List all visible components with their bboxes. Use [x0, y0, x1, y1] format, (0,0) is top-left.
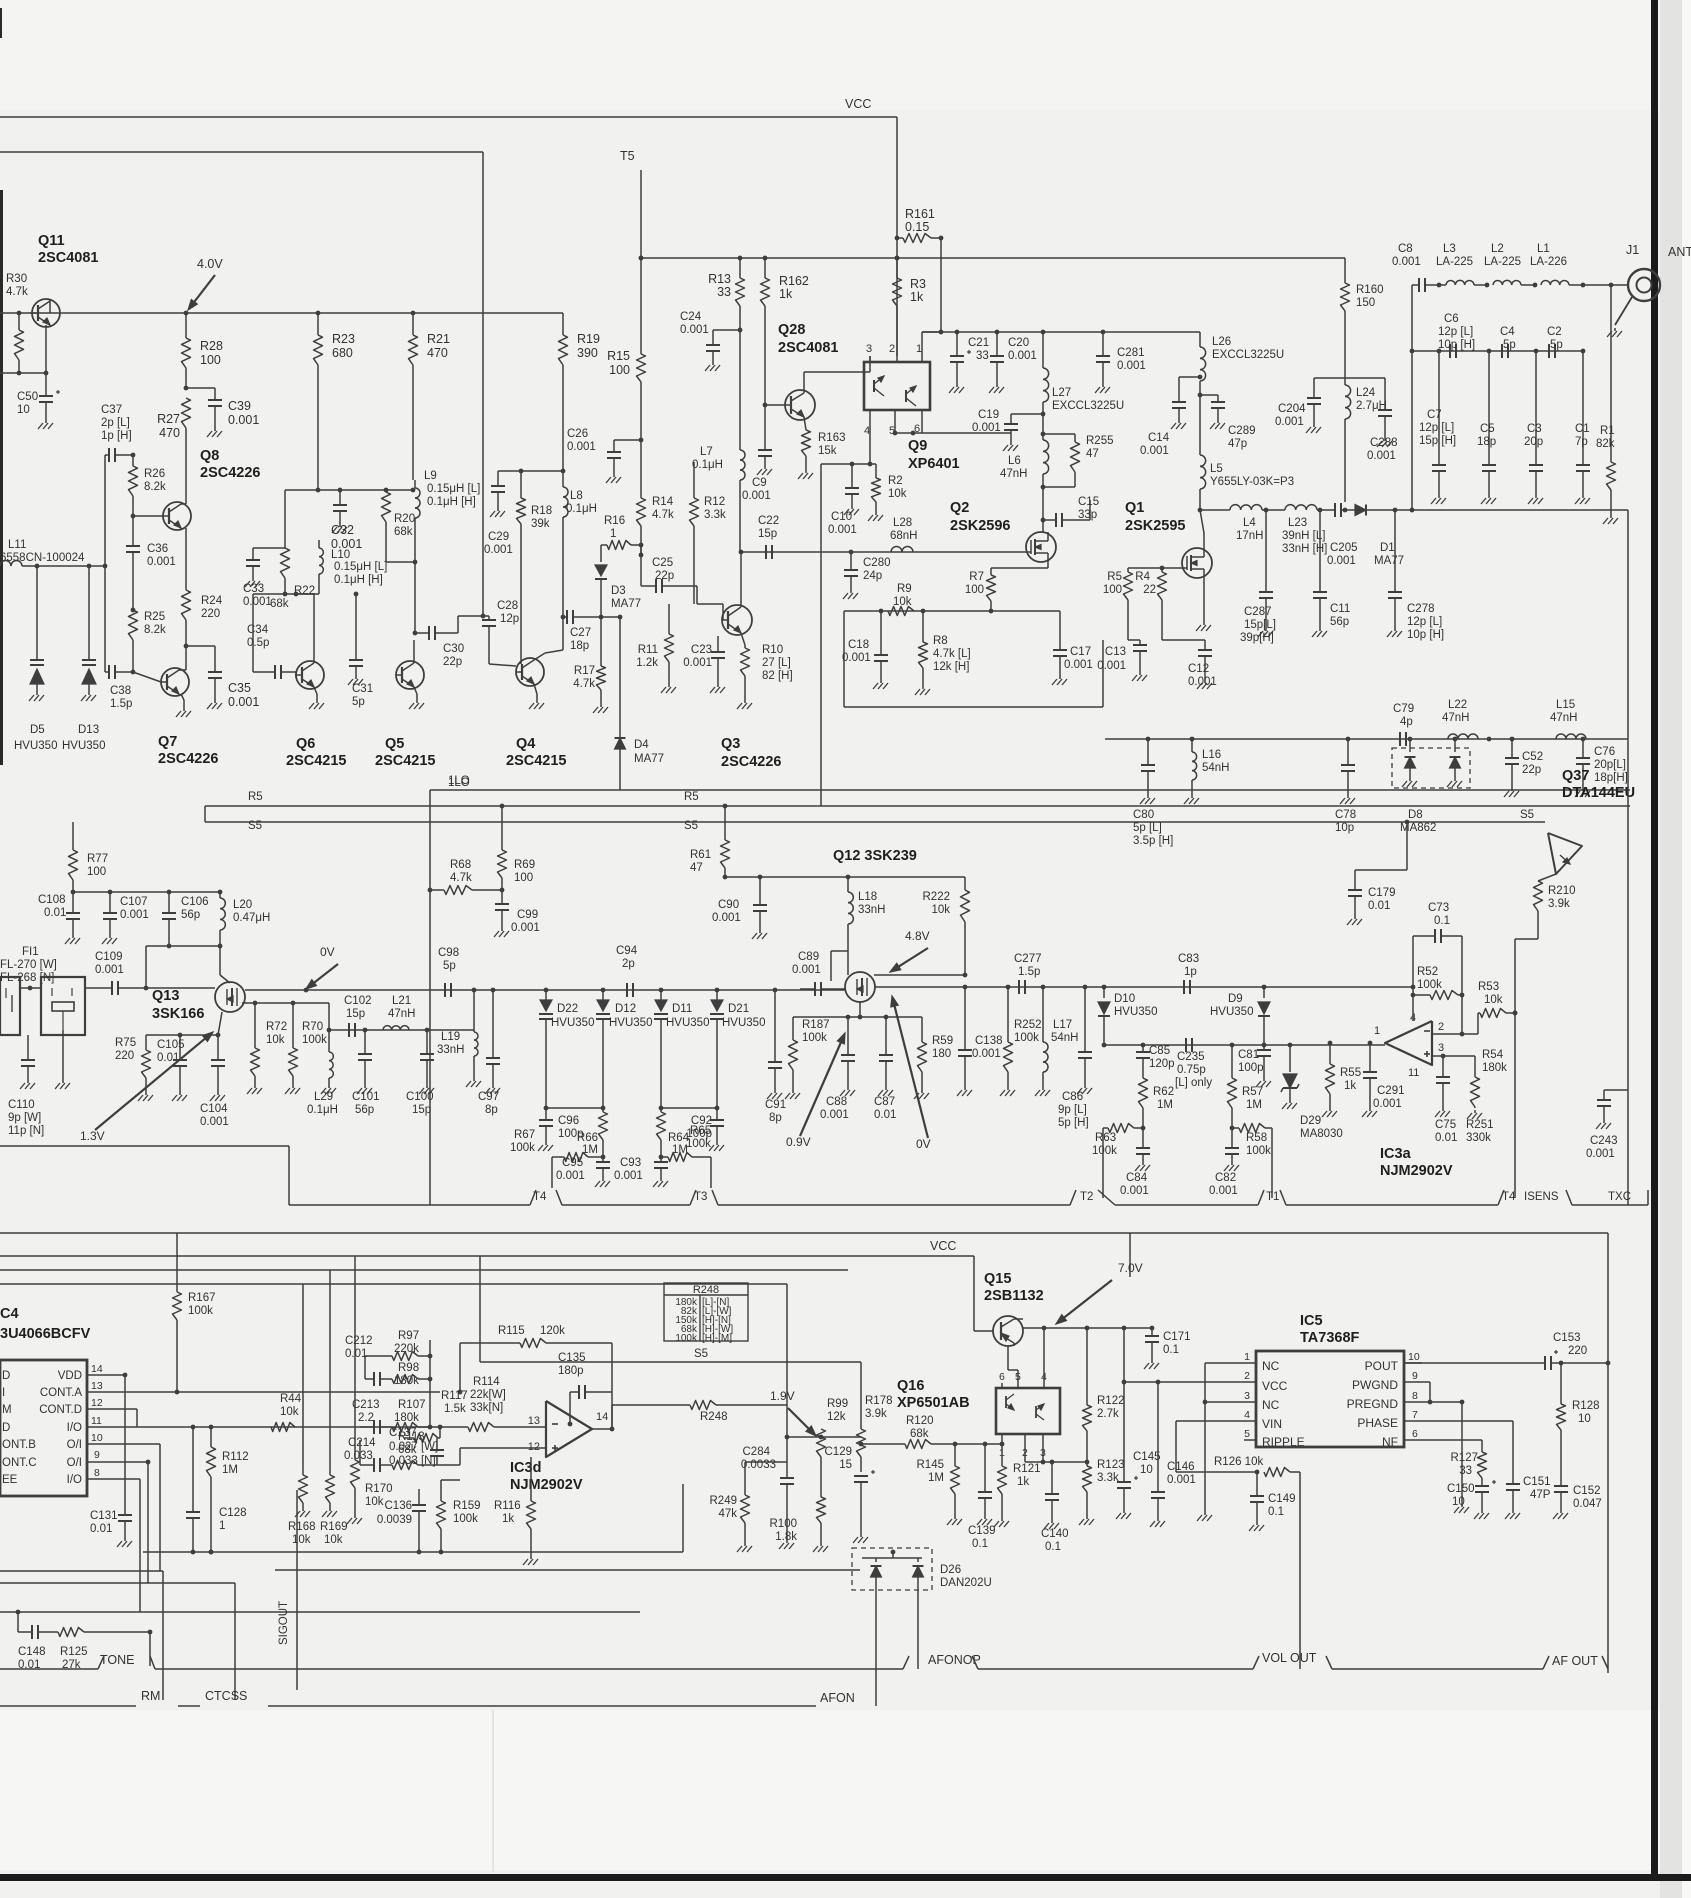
- capacitor C212: [345, 1335, 380, 1386]
- svg-text:C86: C86: [1062, 1091, 1083, 1103]
- svg-text:100k: 100k: [1092, 1145, 1117, 1157]
- svg-text:C34: C34: [247, 624, 269, 636]
- wire IC5 NC tie: [1197, 1363, 1238, 1521]
- svg-text:R162: R162: [779, 274, 809, 288]
- capacitor C87: [874, 1017, 896, 1121]
- border bottom heavy line: [0, 1874, 1691, 1881]
- svg-text:R27: R27: [157, 412, 180, 426]
- resistor R252: [1000, 987, 1042, 1096]
- capacitor C108: [38, 892, 80, 944]
- resistor R248: [612, 1401, 787, 1430]
- svg-text:15p: 15p: [758, 528, 777, 540]
- svg-text:5p [L]: 5p [L]: [1133, 822, 1162, 834]
- svg-text:C15: C15: [1078, 496, 1099, 508]
- resistor R112: [207, 1427, 249, 1554]
- svg-text:L26: L26: [1212, 336, 1231, 348]
- capacitor C23: [683, 636, 725, 693]
- svg-text:CONT.A: CONT.A: [40, 1387, 83, 1399]
- svg-text:C22: C22: [758, 515, 779, 527]
- svg-text:L16: L16: [1202, 749, 1221, 761]
- svg-text:C14: C14: [1148, 432, 1170, 444]
- svg-text:R116: R116: [494, 1500, 521, 1512]
- resistor R187: [785, 1017, 830, 1099]
- svg-text:Q7: Q7: [158, 734, 177, 750]
- ground Q4 emitter: [529, 684, 544, 709]
- wire IC4 pin8: [97, 1479, 140, 1612]
- svg-text:100k: 100k: [188, 1305, 213, 1317]
- svg-text:RM: RM: [141, 1689, 160, 1703]
- svg-text:2p [L]: 2p [L]: [101, 417, 130, 429]
- ground Q7 emitter: [176, 694, 191, 717]
- svg-text:C1: C1: [1575, 423, 1590, 435]
- svg-text:0.001: 0.001: [1209, 1185, 1238, 1197]
- svg-text:100p: 100p: [1238, 1062, 1264, 1074]
- svg-text:0.1μH: 0.1μH: [307, 1104, 338, 1116]
- resistor R62: [1139, 1078, 1175, 1128]
- resistor R23: [314, 311, 355, 490]
- svg-text:C8: C8: [1398, 243, 1413, 255]
- left edge scan mark: [0, 190, 3, 765]
- svg-text:C107: C107: [120, 896, 148, 908]
- svg-text:C235: C235: [1177, 1051, 1205, 1063]
- varactor D9: [1210, 985, 1270, 1045]
- transistor Q4: [506, 650, 566, 769]
- capacitor C10: [828, 464, 859, 536]
- svg-text:D9: D9: [1228, 993, 1243, 1005]
- wire IC5 VCC line: [1122, 1380, 1238, 1385]
- svg-text:C33: C33: [243, 583, 264, 595]
- svg-text:10: 10: [1452, 1496, 1465, 1508]
- svg-text:15: 15: [839, 1459, 852, 1471]
- svg-text:9: 9: [94, 1449, 100, 1461]
- svg-text:PWGND: PWGND: [1352, 1378, 1398, 1392]
- svg-text:C80: C80: [1133, 809, 1154, 821]
- svg-text:IC5: IC5: [1300, 1313, 1323, 1329]
- svg-text:R16: R16: [604, 515, 625, 527]
- svg-text:1LO: 1LO: [448, 775, 470, 787]
- svg-text:10k: 10k: [1484, 994, 1503, 1006]
- svg-text:L28: L28: [893, 517, 912, 529]
- inductor L9: [415, 470, 480, 562]
- svg-text:47nH: 47nH: [388, 1008, 416, 1020]
- svg-text:47nH: 47nH: [1550, 712, 1578, 724]
- svg-text:2SC4081: 2SC4081: [38, 250, 98, 266]
- inductor L6: [1000, 414, 1049, 490]
- svg-text:ONT.C: ONT.C: [2, 1457, 37, 1469]
- svg-text:0.001: 0.001: [556, 1170, 585, 1182]
- svg-text:9: 9: [1412, 1370, 1418, 1382]
- resistor R20: [382, 488, 416, 562]
- capacitor C33: [243, 548, 285, 608]
- svg-text:33: 33: [976, 350, 989, 362]
- capacitor C75: [1435, 1077, 1457, 1144]
- IC5 pin stubs left: [1238, 1351, 1256, 1440]
- wire IC5 gnd pins: [1422, 1382, 1469, 1513]
- svg-text:33k[N]: 33k[N]: [470, 1402, 503, 1414]
- svg-text:R114: R114: [473, 1376, 500, 1388]
- wire L5 node row: [1198, 508, 1230, 513]
- svg-text:330k: 330k: [1466, 1132, 1491, 1144]
- svg-text:0V: 0V: [320, 945, 335, 959]
- svg-text:R77: R77: [87, 853, 108, 865]
- resistor R9: [888, 583, 914, 616]
- frame bottom line 2: [0, 1705, 816, 1707]
- svg-text:10k: 10k: [280, 1406, 299, 1418]
- svg-text:220: 220: [115, 1050, 134, 1062]
- svg-text:AF OUT: AF OUT: [1552, 1654, 1598, 1668]
- svg-text:R252: R252: [1014, 1019, 1042, 1031]
- svg-text:C25: C25: [652, 557, 673, 569]
- svg-text:O/I: O/I: [67, 1439, 82, 1451]
- svg-text:0.033: 0.033: [344, 1450, 373, 1462]
- svg-text:6: 6: [999, 1371, 1005, 1383]
- capacitor C94: [616, 945, 638, 997]
- inductor L23: [1282, 505, 1335, 555]
- wire TONE branch: [18, 1612, 32, 1632]
- svg-text:L2: L2: [1491, 243, 1504, 255]
- svg-text:4.7k [L]: 4.7k [L]: [933, 648, 971, 660]
- svg-text:C278: C278: [1407, 603, 1435, 615]
- svg-text:NF: NF: [1382, 1435, 1398, 1449]
- svg-text:CONT.D: CONT.D: [39, 1404, 82, 1416]
- capacitor C86: [1058, 985, 1092, 1129]
- svg-text:5p [H]: 5p [H]: [1058, 1117, 1089, 1129]
- svg-text:L20: L20: [233, 899, 252, 911]
- capacitor C7: [1419, 351, 1456, 504]
- svg-text:VDD: VDD: [58, 1370, 82, 1382]
- svg-text:47: 47: [690, 862, 703, 874]
- resistor R162: [761, 256, 809, 405]
- svg-text:R65: R65: [690, 1125, 711, 1137]
- svg-text:8p: 8p: [769, 1112, 782, 1124]
- svg-text:100k: 100k: [302, 1034, 327, 1046]
- svg-text:C11: C11: [1330, 603, 1350, 615]
- wire Q28 collector to Q9: [804, 356, 870, 393]
- svg-text:C36: C36: [147, 543, 168, 555]
- svg-text:R169: R169: [320, 1521, 348, 1533]
- svg-text:100: 100: [965, 584, 984, 596]
- resistor R116: [494, 1457, 538, 1565]
- wire C10 row: [821, 462, 876, 806]
- svg-text:Q15: Q15: [984, 1271, 1011, 1287]
- box IC3d block outline: [143, 1484, 683, 1554]
- capacitor C8: [1392, 243, 1441, 292]
- capacitor C82: [1209, 1128, 1239, 1197]
- wire IC3a pin4 column: [1411, 936, 1416, 1021]
- svg-text:C153: C153: [1553, 1332, 1581, 1344]
- svg-text:R178: R178: [865, 1395, 893, 1407]
- svg-text:VCC: VCC: [845, 97, 871, 111]
- IC4 pin stubs: [87, 1363, 103, 1479]
- svg-text:C75: C75: [1435, 1119, 1456, 1131]
- svg-text:C30: C30: [443, 643, 464, 655]
- svg-text:47P: 47P: [1530, 1489, 1551, 1501]
- svg-text:C138: C138: [975, 1035, 1003, 1047]
- svg-text:2SC4226: 2SC4226: [158, 751, 218, 767]
- capacitor C83: [1178, 953, 1199, 994]
- svg-text:C88: C88: [826, 1096, 847, 1108]
- resistor R75: [115, 1035, 153, 1101]
- svg-text:R249: R249: [710, 1495, 738, 1507]
- svg-text:HVU350: HVU350: [722, 1017, 765, 1029]
- svg-text:5p: 5p: [1503, 339, 1516, 351]
- svg-text:10k: 10k: [324, 1534, 343, 1546]
- wire T4 net: [544, 1106, 606, 1111]
- resistor R15: [607, 256, 645, 440]
- svg-text:15k: 15k: [818, 445, 837, 457]
- inductor L29: [307, 1030, 338, 1116]
- capacitor C32: [331, 490, 362, 551]
- wire Q9 pin1 link: [922, 330, 943, 335]
- capacitor C79: [1393, 703, 1414, 746]
- svg-text:Q3: Q3: [721, 736, 740, 752]
- capacitor C73: [1413, 902, 1462, 943]
- svg-text:R53: R53: [1478, 981, 1499, 993]
- svg-text:33: 33: [717, 285, 731, 299]
- wire C108 row: [71, 890, 223, 895]
- svg-text:C140: C140: [1041, 1528, 1069, 1540]
- wire Q6 base bus: [253, 592, 319, 597]
- capacitor C85: [1136, 1045, 1175, 1078]
- svg-text:R24: R24: [201, 595, 223, 607]
- svg-text:20p[L]: 20p[L]: [1594, 759, 1626, 771]
- svg-text:R68: R68: [450, 859, 471, 871]
- frame lower section top line: [0, 1232, 1608, 1234]
- transistor Q1 FET: [1125, 500, 1212, 578]
- resistor R99: [817, 1398, 849, 1457]
- svg-text:8: 8: [94, 1467, 100, 1479]
- svg-text:L11: L11: [8, 539, 26, 551]
- resistor R22: [270, 490, 315, 610]
- svg-text:PREGND: PREGND: [1347, 1397, 1399, 1411]
- wire Q12 source row: [793, 1002, 922, 1019]
- svg-text:[L] only: [L] only: [1175, 1077, 1212, 1089]
- svg-text:R69: R69: [514, 859, 535, 871]
- svg-text:2: 2: [1022, 1447, 1028, 1459]
- svg-text:C37: C37: [101, 404, 122, 416]
- svg-text:Q9: Q9: [908, 438, 927, 454]
- resistor R54: [1467, 1049, 1507, 1119]
- svg-text:7p: 7p: [1575, 436, 1588, 448]
- svg-text:0.001: 0.001: [712, 912, 741, 924]
- capacitor C5: [1477, 351, 1496, 504]
- svg-text:1: 1: [1374, 1025, 1380, 1037]
- resistor R249: [710, 1462, 788, 1552]
- capacitor C151: [1422, 1421, 1551, 1519]
- svg-text:1k: 1k: [1017, 1476, 1029, 1488]
- capacitor C95: [556, 1157, 610, 1187]
- svg-text:C76: C76: [1594, 746, 1615, 758]
- wire C37 left leg: [104, 455, 106, 672]
- svg-text:R8: R8: [933, 635, 948, 647]
- svg-text:C28: C28: [497, 600, 518, 612]
- capacitor C152: [1553, 1485, 1602, 1519]
- svg-text:R14: R14: [652, 496, 674, 508]
- svg-text:T1: T1: [1266, 1191, 1279, 1203]
- node 1.3V callout: [80, 1032, 213, 1143]
- wire IC4 pin13 bus: [97, 1391, 440, 1393]
- svg-text:1k: 1k: [1344, 1080, 1356, 1092]
- wire Q11 emitter row: [0, 325, 48, 375]
- svg-text:MA77: MA77: [634, 753, 664, 765]
- varactor D21: [710, 988, 765, 1108]
- svg-text:DTA144EU: DTA144EU: [1562, 785, 1635, 801]
- svg-text:47nH: 47nH: [1442, 712, 1470, 724]
- svg-text:R10: R10: [762, 644, 783, 656]
- svg-text:L21: L21: [392, 995, 411, 1007]
- svg-text:100k: 100k: [510, 1142, 535, 1154]
- node 7.0V callout: [1056, 1261, 1143, 1324]
- svg-text:4.0V: 4.0V: [197, 257, 223, 271]
- svg-text:C79: C79: [1393, 703, 1414, 715]
- svg-text:C205: C205: [1330, 542, 1358, 554]
- wire 1.9V node: [785, 1405, 905, 1478]
- svg-text:L24: L24: [1356, 387, 1376, 399]
- svg-text:1.3V: 1.3V: [80, 1129, 105, 1143]
- svg-text:39k: 39k: [531, 518, 550, 530]
- svg-text:MA77: MA77: [1374, 555, 1404, 567]
- transistor Q37: [1548, 768, 1635, 874]
- svg-text:C100: C100: [406, 1091, 434, 1103]
- svg-text:Q28: Q28: [778, 322, 805, 338]
- svg-text:C38: C38: [110, 685, 131, 697]
- inductor L10: [319, 540, 387, 594]
- resistor R121: [994, 1444, 1041, 1527]
- svg-text:3SK166: 3SK166: [152, 1006, 204, 1022]
- svg-text:R26: R26: [144, 468, 165, 480]
- svg-text:3U4066BCFV: 3U4066BCFV: [0, 1326, 91, 1342]
- svg-text:T3: T3: [694, 1191, 707, 1203]
- svg-text:R1: R1: [1600, 425, 1615, 437]
- svg-text:C213: C213: [352, 1399, 380, 1411]
- svg-text:2: 2: [1244, 1370, 1250, 1382]
- resistor R65: [661, 1125, 711, 1188]
- svg-text:L9: L9: [424, 470, 437, 482]
- wire IC4 pin12: [97, 1409, 137, 1427]
- main rail: [641, 257, 1345, 259]
- resistor R77: [69, 822, 109, 892]
- svg-text:0.001: 0.001: [1188, 676, 1217, 688]
- transistor Q28: [778, 322, 838, 420]
- wire IC4 pin11 bus: [97, 1425, 430, 1430]
- capacitor C281: [1095, 332, 1146, 393]
- svg-text:C4: C4: [1500, 326, 1515, 338]
- svg-text:0.001: 0.001: [228, 413, 259, 427]
- svg-text:Q11: Q11: [38, 233, 65, 249]
- capacitor C280: [843, 552, 891, 599]
- svg-text:POUT: POUT: [1365, 1359, 1399, 1373]
- svg-text:68k: 68k: [910, 1428, 929, 1440]
- svg-text:8.2k: 8.2k: [144, 481, 166, 493]
- svg-text:3.3k: 3.3k: [704, 509, 726, 521]
- svg-text:R9: R9: [897, 583, 912, 595]
- wire T3 net: [659, 1106, 720, 1111]
- capacitor C135: [558, 1343, 612, 1429]
- svg-text:3: 3: [1438, 1042, 1444, 1054]
- svg-text:9p [W]: 9p [W]: [8, 1112, 41, 1124]
- svg-text:C20: C20: [1008, 337, 1029, 349]
- resistor R1: [1596, 283, 1618, 524]
- inductor L8: [561, 471, 597, 650]
- svg-text:C17: C17: [1070, 646, 1091, 658]
- svg-text:1k: 1k: [779, 287, 793, 301]
- capacitor C179: [1347, 820, 1409, 925]
- svg-text:C139: C139: [968, 1525, 996, 1537]
- svg-text:0.001: 0.001: [1392, 256, 1421, 268]
- svg-text:C21: C21: [968, 337, 989, 349]
- inductor L18: [848, 877, 886, 975]
- capacitor C98: [438, 947, 459, 997]
- capacitor C205: [1327, 503, 1358, 567]
- IC5 pin stubs right: [1404, 1351, 1422, 1440]
- transistor Q8: [161, 448, 260, 530]
- svg-text:0.001: 0.001: [1167, 1474, 1196, 1486]
- svg-text:C81: C81: [1238, 1049, 1259, 1061]
- svg-text:R98: R98: [398, 1362, 419, 1374]
- capacitor C128: [186, 1427, 247, 1552]
- svg-text:C35: C35: [228, 681, 251, 695]
- svg-text:1M: 1M: [928, 1472, 944, 1484]
- svg-text:VCC: VCC: [930, 1239, 956, 1253]
- svg-text:1.9V: 1.9V: [770, 1389, 795, 1403]
- capacitor C235: [1175, 1038, 1212, 1089]
- svg-text:C108: C108: [38, 894, 66, 906]
- capacitor C31: [348, 592, 373, 708]
- svg-text:Q8: Q8: [200, 448, 219, 464]
- svg-text:R160: R160: [1356, 284, 1384, 296]
- svg-text:0.001: 0.001: [1327, 555, 1356, 567]
- wire Q13 gate: [146, 987, 215, 989]
- svg-text:4.7k: 4.7k: [6, 286, 28, 298]
- svg-text:C23: C23: [691, 644, 712, 656]
- svg-text:4.7k: 4.7k: [652, 509, 674, 521]
- wire R170 drop: [354, 1256, 356, 1448]
- wire C79 row: [1105, 737, 1628, 742]
- svg-text:0.001: 0.001: [972, 1048, 1001, 1060]
- capacitor C131: [90, 1510, 132, 1547]
- svg-text:R11: R11: [638, 644, 658, 656]
- svg-text:1.8k: 1.8k: [775, 1531, 797, 1543]
- resistor R19: [559, 313, 600, 420]
- svg-text:0.001: 0.001: [1064, 659, 1093, 671]
- svg-text:12p [L]: 12p [L]: [1438, 326, 1473, 338]
- svg-text:0.1: 0.1: [1163, 1344, 1179, 1356]
- resistor R12: [690, 462, 726, 604]
- capacitor C12: [1162, 600, 1217, 689]
- svg-text:C83: C83: [1178, 953, 1199, 965]
- resistor R66: [577, 1112, 608, 1159]
- svg-text:C50: C50: [17, 391, 38, 403]
- wire R168 drop: [302, 1284, 304, 1462]
- svg-text:2.2: 2.2: [358, 1412, 374, 1424]
- svg-text:R2: R2: [888, 475, 903, 487]
- svg-text:R5: R5: [684, 791, 699, 803]
- capacitor C89: [792, 951, 848, 996]
- svg-text:C2: C2: [1547, 326, 1562, 338]
- svg-text:C281: C281: [1117, 347, 1145, 359]
- svg-text:C109: C109: [95, 951, 123, 963]
- capacitor C81: [1238, 1045, 1271, 1087]
- ground FI1: [55, 1030, 70, 1089]
- inductor L15: [1550, 699, 1586, 739]
- diode D8 pair: [1392, 739, 1470, 834]
- wire Q13 out row: [245, 988, 845, 993]
- frame lower right edge: [1607, 1233, 1609, 1673]
- svg-text:C26: C26: [567, 428, 588, 440]
- capacitor C9: [742, 403, 772, 502]
- svg-text:C102: C102: [344, 995, 372, 1007]
- svg-text:C151: C151: [1523, 1476, 1551, 1488]
